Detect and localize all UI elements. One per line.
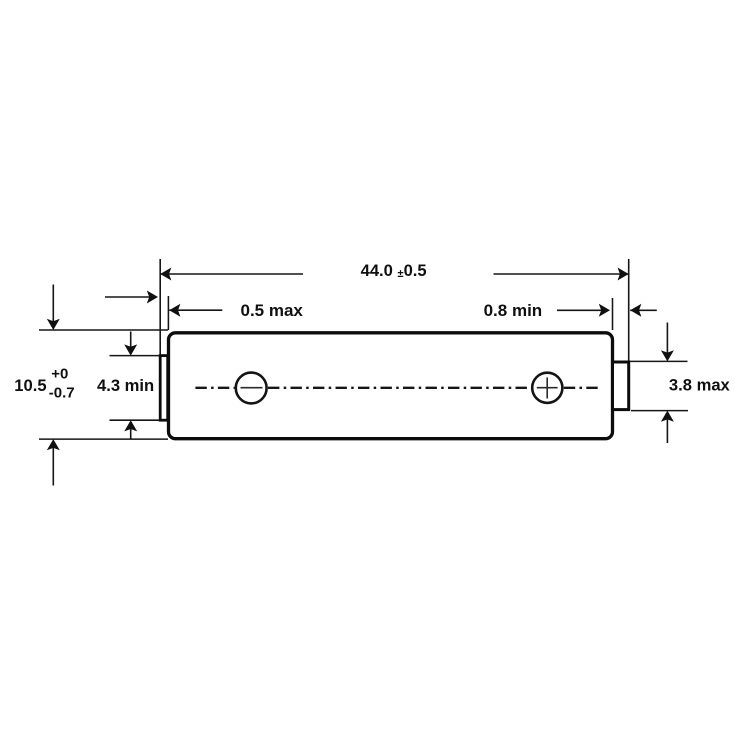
3.8 max top line <box>630 360 688 362</box>
3.8 max bottom line <box>631 410 688 412</box>
4.3 min bottom line <box>110 419 160 421</box>
plus sign <box>537 377 558 398</box>
positive pole circle <box>532 373 562 403</box>
negative terminal plate (left cap) <box>160 356 168 421</box>
outside arrow pointing left at x=628.7 (0.8 min right bound) <box>630 304 657 317</box>
svg-text:4.3 min: 4.3 min <box>97 376 154 395</box>
negative pole circle <box>236 373 267 404</box>
battery body outline <box>169 333 613 439</box>
svg-text:44.0 ±0.5: 44.0 ±0.5 <box>361 261 427 280</box>
0.8 min arrow pointing right at x=612.5 <box>557 304 610 317</box>
4.3 min down arrow <box>124 332 137 356</box>
10.5 down arrow <box>47 285 60 331</box>
svg-text:0.5 max: 0.5 max <box>241 301 304 320</box>
svg-text:3.8 max: 3.8 max <box>669 376 731 395</box>
svg-text:0.8 min: 0.8 min <box>484 301 543 320</box>
svg-text:-0.7: -0.7 <box>49 384 75 401</box>
center line (dash-dot axis) <box>195 387 600 389</box>
3.8 max up arrow <box>661 411 674 443</box>
minus sign <box>241 387 263 389</box>
extension line body left face (x=168.4) <box>167 296 169 330</box>
10.5 bottom dimension line <box>39 438 168 440</box>
svg-text:10.5: 10.5 <box>14 376 46 395</box>
extension line right overall (x=628.7) <box>628 259 630 361</box>
10.5 top dimension line <box>39 329 168 331</box>
outside arrow pointing right at x=160 (0.5 max left bound) <box>105 291 158 304</box>
dimension line 44.0 right segment with arrow <box>494 268 629 281</box>
0.5 max arrow pointing left at x=168.4 <box>169 304 222 317</box>
positive terminal button (right) <box>613 362 629 410</box>
4.3 min up arrow <box>124 420 137 438</box>
4.3 min top line <box>110 355 160 357</box>
3.8 max down arrow <box>661 323 674 362</box>
10.5 up arrow <box>47 439 60 485</box>
extension line body right face (x=612.5) <box>612 298 614 330</box>
svg-text:+0: +0 <box>51 365 68 382</box>
dimension line 44.0 left segment with arrow <box>160 268 303 281</box>
extension line left overall (x=160) <box>159 259 161 355</box>
